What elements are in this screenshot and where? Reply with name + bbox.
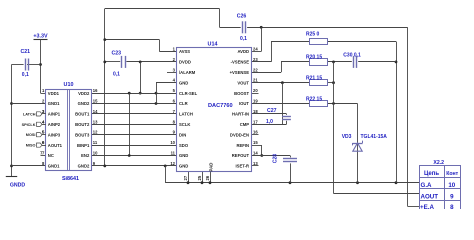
svg-text:15: 15 (93, 99, 98, 104)
svg-text:/ALARM: /ALARM (179, 70, 196, 75)
svg-text:VOUT: VOUT (237, 80, 249, 85)
svg-text:R22 15: R22 15 (306, 97, 322, 103)
svg-text:CMP: CMP (240, 122, 250, 127)
svg-text:9: 9 (450, 193, 454, 200)
svg-text:DVDD-EN: DVDD-EN (230, 132, 249, 137)
svg-text:20: 20 (253, 88, 258, 93)
svg-text:0,1: 0,1 (240, 36, 247, 42)
svg-text:22: 22 (253, 67, 258, 72)
svg-text:19: 19 (253, 99, 258, 104)
svg-text:23: 23 (253, 57, 258, 62)
svg-text:27: 27 (183, 175, 188, 180)
svg-text:R21 15: R21 15 (306, 75, 322, 81)
svg-text:EN2: EN2 (81, 153, 90, 158)
svg-text:GND: GND (179, 153, 188, 158)
svg-text:SDO: SDO (179, 143, 189, 148)
svg-text:BOOST: BOOST (234, 91, 249, 96)
svg-text:C28: C28 (273, 154, 279, 163)
svg-text:PAD: PAD (209, 163, 214, 172)
svg-text:R20 15: R20 15 (306, 54, 322, 60)
svg-text:DAC7760: DAC7760 (208, 103, 233, 109)
svg-text:AOUT: AOUT (421, 193, 439, 200)
svg-text:VD3: VD3 (342, 134, 352, 140)
svg-text:11: 11 (171, 151, 176, 156)
svg-text:Si8641: Si8641 (62, 176, 79, 182)
svg-text:LATCH: LATCH (179, 112, 193, 117)
svg-text:SPICLK: SPICLK (22, 123, 36, 127)
svg-text:C30 0,1: C30 0,1 (343, 53, 361, 59)
svg-text:12: 12 (170, 161, 175, 166)
svg-text:AVDD: AVDD (237, 49, 249, 54)
svg-text:10: 10 (170, 140, 175, 145)
svg-text:1,0: 1,0 (266, 119, 273, 125)
svg-text:REFIN: REFIN (236, 143, 249, 148)
svg-text:16: 16 (253, 130, 258, 135)
svg-text:24: 24 (253, 47, 258, 52)
svg-text:TGL41-15A: TGL41-15A (361, 134, 388, 140)
svg-text:16: 16 (93, 88, 98, 93)
svg-text:C21: C21 (21, 49, 31, 55)
svg-text:12: 12 (93, 130, 98, 135)
svg-text:BOUT2: BOUT2 (75, 122, 90, 127)
svg-text:GND1: GND1 (48, 101, 60, 106)
svg-text:0,1: 0,1 (22, 72, 29, 78)
svg-text:GND2: GND2 (78, 164, 90, 169)
svg-text:R25 0: R25 0 (306, 32, 320, 38)
svg-text:15: 15 (253, 140, 258, 145)
svg-text:MISO: MISO (26, 144, 36, 148)
svg-text:SCLK: SCLK (179, 122, 190, 127)
svg-text:HART-IN: HART-IN (232, 112, 249, 117)
svg-text:ISET-R: ISET-R (236, 164, 250, 169)
svg-text:BOUT3: BOUT3 (75, 132, 90, 137)
svg-text:GND2: GND2 (78, 101, 90, 106)
svg-text:VDD2: VDD2 (78, 91, 90, 96)
svg-text:14: 14 (93, 109, 98, 114)
svg-text:GND: GND (179, 80, 188, 85)
svg-text:U10: U10 (64, 82, 74, 88)
svg-text:BOUT1: BOUT1 (75, 112, 90, 117)
svg-text:GND: GND (179, 164, 188, 169)
svg-text:Цепь: Цепь (424, 171, 439, 177)
svg-text:C26: C26 (237, 13, 247, 19)
svg-text:C27: C27 (267, 108, 277, 114)
svg-text:CLR-SEL: CLR-SEL (179, 91, 198, 96)
svg-text:C23: C23 (112, 50, 122, 56)
svg-text:25: 25 (197, 175, 202, 180)
svg-text:REFOUT: REFOUT (232, 153, 250, 158)
svg-text:CLR: CLR (179, 101, 188, 106)
svg-text:21: 21 (253, 78, 258, 83)
svg-text:GNDD: GNDD (10, 182, 26, 188)
svg-text:G.A: G.A (421, 182, 433, 189)
svg-text:+3.3V: +3.3V (33, 33, 48, 39)
svg-text:14: 14 (253, 151, 258, 156)
svg-text:13: 13 (93, 119, 98, 124)
svg-text:MOSI: MOSI (26, 133, 36, 137)
svg-text:AVSS: AVSS (179, 49, 190, 54)
svg-text:LATCH: LATCH (23, 112, 36, 116)
svg-text:11: 11 (93, 140, 98, 145)
svg-text:17: 17 (253, 119, 258, 124)
svg-text:U14: U14 (208, 41, 218, 47)
svg-text:DIN: DIN (179, 132, 186, 137)
svg-text:AOUT1: AOUT1 (48, 143, 63, 148)
svg-text:IOUT: IOUT (239, 101, 249, 106)
svg-text:10: 10 (93, 151, 98, 156)
svg-text:AINP3: AINP3 (48, 132, 61, 137)
svg-text:8: 8 (450, 204, 454, 209)
svg-text:10: 10 (448, 182, 455, 189)
svg-text:NC: NC (48, 153, 54, 158)
svg-text:AINP2: AINP2 (48, 122, 61, 127)
svg-text:26: 26 (205, 175, 210, 180)
svg-text:DVDD: DVDD (179, 60, 191, 65)
svg-text:13: 13 (253, 161, 258, 166)
svg-text:0,1: 0,1 (113, 72, 120, 78)
svg-text:BINP1: BINP1 (77, 143, 90, 148)
svg-text:18: 18 (253, 109, 258, 114)
svg-text:+VSENSE: +VSENSE (230, 70, 250, 75)
svg-text:AINP1: AINP1 (48, 112, 61, 117)
svg-text:+E.A: +E.A (420, 204, 434, 209)
svg-text:Конт: Конт (446, 171, 458, 177)
svg-text:GND1: GND1 (48, 164, 60, 169)
svg-text:-VSENSE: -VSENSE (231, 60, 250, 65)
svg-text:VDD1: VDD1 (48, 91, 60, 96)
